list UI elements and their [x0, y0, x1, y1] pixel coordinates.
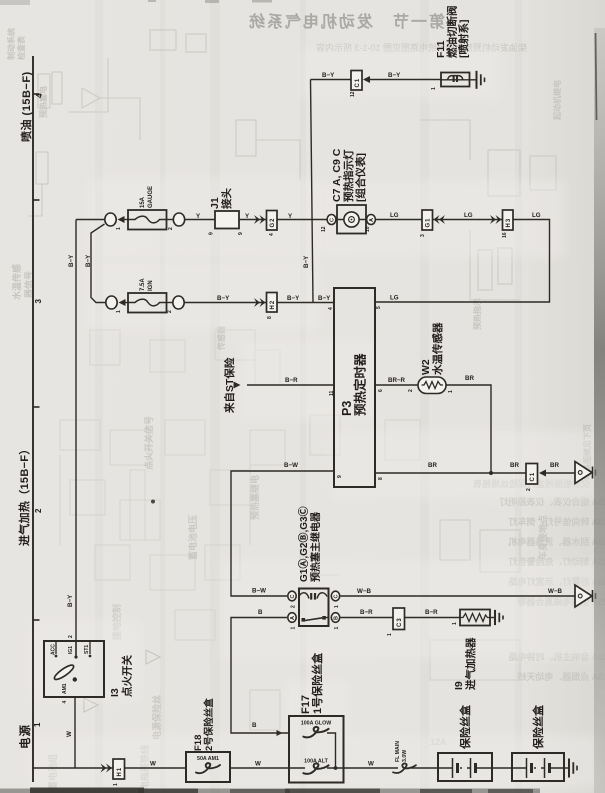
wire fuse to circle2 — [167, 219, 174, 221]
svg-text:B−Y: B−Y — [85, 254, 92, 267]
svg-text:预热定时器: 预热定时器 — [353, 353, 368, 416]
wire B-Y from C1 down to row2 junction — [311, 80, 314, 303]
svg-text:LG: LG — [390, 212, 399, 219]
svg-text:F11: F11 — [435, 40, 447, 58]
wire J1 to G2 — [239, 219, 267, 221]
svg-text:燃油切断阀: 燃油切断阀 — [446, 6, 459, 59]
svg-text:G1: G1 — [426, 217, 432, 227]
connector H2 — [267, 293, 278, 313]
wire F17 to FL MAIN — [344, 767, 399, 769]
junction connector J1 box — [215, 211, 239, 229]
section number 1 — [33, 722, 42, 727]
fuse element wave — [128, 216, 167, 223]
svg-text:4: 4 — [269, 233, 275, 236]
svg-text:B−W: B−W — [284, 462, 298, 469]
intake heater I9 box — [460, 610, 490, 626]
node circle fuse row2 right — [173, 296, 184, 309]
svg-text:3: 3 — [420, 234, 426, 237]
label G1A G2B G3C 预热塞主继电器 — [297, 506, 322, 582]
pin 4 — [269, 233, 275, 236]
label ACC — [51, 644, 57, 655]
svg-text:B−Y: B−Y — [322, 72, 335, 79]
svg-text:3: 3 — [34, 299, 43, 304]
svg-text:保险丝盒: 保险丝盒 — [458, 704, 472, 750]
label FL MAIN 3.0W — [395, 741, 408, 762]
label P3 预热定时器 — [340, 353, 368, 416]
svg-text:W: W — [368, 761, 374, 768]
pin 1 — [448, 390, 454, 393]
svg-text:2: 2 — [168, 227, 174, 230]
wire label B-Y vertical on C1 feed — [303, 255, 310, 268]
svg-text:蓄电池电压: 蓄电池电压 — [187, 515, 198, 560]
arrow into F17 glow — [277, 730, 283, 736]
svg-text:检查表: 检查表 — [16, 35, 26, 60]
pin 1 — [334, 605, 340, 608]
ink speck — [151, 500, 155, 504]
pin 2 — [167, 310, 173, 313]
connector C3 — [393, 608, 405, 630]
svg-text:B−R: B−R — [360, 609, 373, 616]
pin 1 — [387, 633, 393, 636]
section number 2 — [34, 508, 43, 513]
svg-text:12: 12 — [350, 91, 356, 97]
svg-text:A: A — [290, 616, 296, 620]
pin 8 — [267, 316, 273, 319]
connector G2 — [267, 211, 278, 231]
svg-text:2: 2 — [167, 310, 173, 313]
svg-text:FL MAIN: FL MAIN — [395, 741, 401, 762]
preheat indicator lamp C7A C9C box — [337, 205, 366, 234]
svg-text:进气加热器: 进气加热器 — [464, 637, 477, 690]
svg-text:B−W: B−W — [252, 588, 266, 595]
sensor resistor zigzag — [422, 382, 444, 389]
svg-text:ST1: ST1 — [84, 645, 90, 654]
wire battery1 to battery2 — [492, 767, 512, 769]
svg-text:B−R: B−R — [425, 609, 438, 616]
svg-text:2: 2 — [34, 508, 43, 513]
pin 12 — [350, 91, 356, 97]
wire H1 to F18 — [125, 767, 187, 769]
svg-text:1: 1 — [33, 722, 42, 727]
svg-text:电源保险丝: 电源保险丝 — [151, 695, 162, 740]
wire through F17 row — [289, 767, 344, 769]
svg-text:C7 A, C9 C: C7 A, C9 C — [331, 148, 343, 202]
relay circle C right — [331, 591, 339, 601]
wire B relay A to glow fuse — [231, 618, 289, 734]
wire W ign to bottom row — [74, 697, 76, 768]
wire to connector C1 top — [311, 79, 352, 81]
section label 进气加热(15B-F) — [17, 443, 31, 546]
chevron arrows into H3 — [490, 215, 502, 224]
lamp connector circle A — [367, 215, 376, 225]
label 15A GAUGE — [140, 186, 154, 208]
ground chassis battery — [564, 759, 577, 778]
label J1 接头 — [209, 188, 233, 209]
wire C3 to I9 — [405, 617, 461, 619]
label ST1 — [84, 645, 90, 654]
pin 1 — [334, 627, 340, 630]
wire C1 to F11 — [370, 79, 442, 81]
pin 1 — [291, 627, 297, 630]
pin 6 — [378, 389, 384, 392]
svg-text:1: 1 — [452, 622, 458, 625]
wire to ground triangle — [546, 472, 575, 474]
label F11 燃油切断阀 喷射系 — [435, 6, 470, 59]
pin 1 — [116, 227, 122, 230]
pin 12 — [321, 226, 327, 232]
section ruler line — [32, 56, 34, 782]
svg-text:B−R: B−R — [285, 377, 298, 384]
ground triangle W-B — [575, 585, 596, 607]
svg-text:50A AM1: 50A AM1 — [197, 756, 219, 762]
svg-text:预热塞继电: 预热塞继电 — [249, 475, 260, 520]
section tick 4 — [33, 93, 40, 95]
svg-text:1: 1 — [116, 310, 122, 313]
battery cells 2 — [512, 758, 564, 778]
pin 9 right — [238, 232, 244, 235]
battery box 2 — [512, 753, 564, 781]
wire P3 to W2 — [375, 384, 418, 386]
pin 1 — [113, 783, 119, 786]
svg-text:制动系统: 制动系统 — [6, 28, 16, 60]
svg-text:BR−R: BR−R — [388, 377, 406, 384]
ground chassis F11 — [470, 71, 485, 89]
svg-text:C: C — [290, 595, 296, 599]
svg-text:H2: H2 — [270, 300, 276, 310]
svg-text:J1: J1 — [209, 197, 221, 209]
svg-text:W−B: W−B — [357, 588, 371, 595]
svg-text:10A 转向信号灯、倒车灯: 10A 转向信号灯、倒车灯 — [508, 516, 605, 527]
svg-text:1: 1 — [116, 227, 122, 230]
svg-text:8: 8 — [378, 477, 384, 480]
fusible link FL MAIN 3.0W — [393, 763, 416, 773]
svg-text:水温传感: 水温传感 — [11, 264, 22, 300]
pin 1 — [452, 622, 458, 625]
svg-text:C1: C1 — [530, 472, 536, 482]
svg-text:2: 2 — [408, 389, 414, 392]
svg-text:[组合仪表]: [组合仪表] — [354, 153, 367, 202]
wire W2 to BR junction — [446, 385, 491, 473]
node circle fuse row1 left — [105, 213, 116, 226]
svg-text:4: 4 — [62, 701, 68, 704]
svg-text:LG: LG — [464, 212, 473, 219]
lamp connector circle C — [327, 215, 336, 225]
svg-text:15A 点烟器、电动天线: 15A 点烟器、电动天线 — [517, 671, 605, 682]
svg-text:10: 10 — [365, 226, 371, 232]
wire W-B relay to ground — [341, 595, 576, 597]
wire F18 to F17 — [230, 767, 289, 769]
pin 4 — [328, 307, 334, 310]
pin 1 — [431, 87, 437, 90]
svg-text:W: W — [255, 761, 261, 768]
pin 4 — [62, 701, 68, 704]
battery box 1 — [438, 753, 492, 781]
svg-text:2号保险丝盒: 2号保险丝盒 — [203, 698, 215, 751]
svg-text:1: 1 — [291, 627, 297, 630]
section tick 1-2 boundary — [33, 619, 40, 621]
pin 2 above — [68, 635, 74, 638]
section label 喷油(15B-F) — [19, 71, 33, 142]
svg-text:喷油 (15B−F): 喷油 (15B−F) — [19, 71, 33, 142]
svg-text:预热指示灯: 预热指示灯 — [342, 149, 355, 202]
svg-text:B: B — [252, 722, 257, 729]
svg-text:9: 9 — [337, 475, 343, 478]
pin 5 — [376, 306, 382, 309]
wire label B-Y vertical — [67, 594, 74, 607]
ground triangle BR — [575, 462, 596, 484]
lamp symbol — [337, 212, 366, 227]
chevron arrows into H1 — [101, 764, 113, 773]
svg-text:B−Y: B−Y — [67, 594, 74, 607]
svg-text:F18: F18 — [193, 735, 204, 751]
fuse box F18 — [186, 752, 230, 782]
svg-text:1号保险丝盒: 1号保险丝盒 — [310, 652, 324, 714]
svg-text:LG: LG — [390, 295, 399, 302]
wire fuse2 to circle — [167, 302, 173, 304]
water temp sensor W2 capsule — [418, 377, 446, 394]
arrow into row2 circle — [119, 299, 126, 306]
svg-text:B: B — [258, 609, 263, 616]
svg-text:BR: BR — [428, 462, 437, 469]
pin 11 — [329, 390, 335, 396]
svg-text:B−Y: B−Y — [287, 295, 300, 302]
pin 2 — [291, 605, 297, 608]
pin 10 — [365, 226, 371, 232]
svg-text:接头: 接头 — [220, 188, 233, 209]
svg-text:IGN: IGN — [148, 280, 154, 291]
wire label W vertical — [66, 731, 73, 737]
label 保险丝盒 battery1 — [458, 704, 472, 750]
svg-text:G2: G2 — [270, 217, 276, 227]
arrow into C1 — [363, 76, 370, 83]
wire lamp to G1 — [376, 219, 422, 221]
relay circle C left — [288, 591, 296, 601]
chevron arrows into G1 — [434, 215, 446, 224]
node circle fuse row1 right — [173, 213, 184, 226]
svg-text:ACC: ACC — [51, 644, 57, 655]
label F18 2号保险丝盒 — [193, 698, 215, 751]
connector H1 — [113, 759, 125, 779]
svg-text:LG: LG — [532, 212, 541, 219]
wire label B-Y vertical 2 — [85, 254, 92, 267]
wire H2 to P3 — [277, 302, 334, 304]
svg-text:B: B — [334, 616, 340, 620]
relay circle A left — [288, 613, 296, 623]
svg-text:C: C — [330, 218, 336, 222]
wire B-R from ST fuse — [247, 384, 334, 386]
page gutter shadow right edge — [594, 28, 605, 793]
svg-text:2: 2 — [526, 488, 532, 491]
svg-text:GAUGE: GAUGE — [148, 186, 154, 208]
svg-text:预热塞电: 预热塞电 — [38, 86, 48, 118]
svg-text:电源: 电源 — [18, 724, 32, 749]
wire G1 to H3 — [433, 219, 503, 221]
switch lever AM1 — [53, 663, 77, 682]
label IG1 — [68, 646, 74, 654]
svg-text:B−Y: B−Y — [68, 254, 75, 267]
svg-text:第一节 发动机电气系统: 第一节 发动机电气系统 — [247, 12, 445, 31]
preheat timer P3 box — [334, 288, 375, 487]
svg-text:I9: I9 — [453, 681, 465, 690]
svg-text:2: 2 — [68, 635, 74, 638]
connector G1 — [422, 210, 433, 230]
pin 9 — [337, 475, 343, 478]
svg-text:B−Y: B−Y — [388, 72, 401, 79]
svg-text:1: 1 — [113, 783, 119, 786]
terminal ACC — [55, 641, 57, 654]
label AM1 — [62, 683, 68, 694]
svg-text:W−B: W−B — [548, 588, 562, 595]
svg-text:7.5A: 7.5A — [140, 278, 146, 291]
wire B-R relay B to C3 — [341, 617, 394, 619]
label F17 1号保险丝盒 — [300, 652, 324, 714]
svg-text:5: 5 — [376, 306, 382, 309]
svg-text:6: 6 — [378, 389, 384, 392]
section tick 2-3 boundary — [33, 406, 40, 408]
svg-text:10A 刮水器、洗涤器电机: 10A 刮水器、洗涤器电机 — [508, 536, 605, 547]
bottom page edge shadow — [0, 788, 540, 793]
pin 2 — [408, 389, 414, 392]
svg-text:12: 12 — [321, 226, 327, 232]
svg-text:1: 1 — [334, 627, 340, 630]
wire G2 to lamp — [277, 219, 337, 221]
svg-text:I3: I3 — [109, 688, 121, 697]
svg-text:C1: C1 — [355, 78, 361, 88]
connector C1 fuel cut — [351, 71, 362, 91]
fuse F-GAUGE 15A box — [128, 210, 167, 230]
svg-text:H3: H3 — [506, 218, 512, 228]
svg-text:C: C — [334, 595, 340, 599]
relay contact — [302, 616, 329, 622]
wire glow to main row — [327, 733, 336, 768]
pin 2 — [168, 227, 174, 230]
label C7A C9C 预热指示灯 组合仪表 — [331, 148, 367, 202]
svg-text:B−Y: B−Y — [303, 255, 310, 268]
wire B-W P3 to relay coil — [231, 471, 334, 596]
svg-text:16: 16 — [502, 232, 508, 238]
arrow into C1 lower — [539, 470, 546, 477]
heater resistor zigzag — [460, 614, 490, 622]
section label 电源 — [18, 724, 32, 749]
label 7.5A IGN — [140, 278, 154, 291]
wire P3 pin8 BR to ground — [375, 472, 526, 474]
pin 3 — [420, 234, 426, 237]
label I3 点火开关 — [109, 655, 134, 697]
wire B-Y down to ignition switch — [75, 220, 77, 657]
svg-text:100A GLOW: 100A GLOW — [301, 721, 331, 727]
svg-text:保险丝盒: 保险丝盒 — [531, 704, 545, 750]
ground chassis I9 — [490, 610, 503, 625]
fuse box F17 — [289, 716, 344, 783]
svg-text:AM1: AM1 — [62, 683, 68, 694]
wire H3 to LG corner — [375, 220, 550, 303]
wire FL to battery — [411, 767, 438, 769]
svg-text:8: 8 — [267, 316, 273, 319]
svg-text:15A: 15A — [140, 196, 146, 208]
svg-text:水温传感器: 水温传感器 — [431, 322, 444, 376]
section tick 3-4 boundary — [33, 199, 40, 201]
wire to J1 — [185, 219, 215, 221]
label W2 水温传感器 — [420, 322, 444, 376]
pin 1 — [116, 310, 122, 313]
terminal IG1 with feed — [75, 641, 77, 655]
svg-text:C3: C3 — [397, 617, 403, 627]
svg-text:BR: BR — [465, 375, 474, 382]
terminal ST1 — [89, 641, 91, 654]
svg-text:W2: W2 — [420, 359, 432, 375]
glow relay box G1A G2B G3C — [299, 589, 329, 627]
svg-text:进气加热（15B−F）: 进气加热（15B−F） — [17, 443, 31, 546]
svg-text:点火开关信号: 点火开关信号 — [143, 416, 154, 470]
svg-text:W: W — [150, 761, 156, 768]
connector H3 — [503, 210, 514, 230]
solenoid coil — [441, 79, 470, 81]
wire B-Y to 15A GAUGE fuse — [76, 219, 104, 221]
wire label B-Y vertical — [68, 254, 75, 267]
svg-text:9: 9 — [238, 232, 244, 235]
junction dot — [334, 766, 338, 770]
fuel cut solenoid F11 box — [441, 73, 470, 87]
pin 9 left — [209, 232, 215, 235]
pin 8 — [378, 477, 384, 480]
svg-text:[喷射系]: [喷射系] — [457, 20, 470, 59]
chevron arrows into G2 — [254, 215, 266, 224]
fuse link 100A ALT — [303, 763, 328, 774]
svg-text:来自ST保险: 来自ST保险 — [223, 357, 236, 414]
relay circle B right — [331, 613, 339, 623]
label 来自ST保险 — [223, 357, 236, 414]
svg-text:点火开关: 点火开关 — [121, 655, 134, 697]
svg-text:3.0W: 3.0W — [402, 750, 408, 762]
svg-text:A: A — [369, 218, 375, 222]
fuse link 50A — [196, 763, 220, 773]
svg-text:4: 4 — [35, 93, 44, 98]
junction dot — [489, 471, 493, 475]
label I9 进气加热器 — [453, 637, 477, 690]
section number 4 — [35, 93, 44, 98]
node circle fuse row2 left — [106, 296, 117, 309]
svg-text:B−Y: B−Y — [318, 295, 331, 302]
svg-text:P3: P3 — [340, 401, 354, 416]
connector C1 lower — [526, 464, 538, 485]
section number 3 — [34, 299, 43, 304]
svg-text:H1: H1 — [117, 767, 123, 777]
relay coil — [299, 593, 327, 599]
svg-text:预热塞主继电器: 预热塞主继电器 — [309, 511, 322, 582]
svg-text:起动机继电: 起动机继电 — [552, 80, 562, 121]
svg-text:1: 1 — [448, 390, 454, 393]
battery cells 1 — [438, 758, 492, 778]
arrow into row1 circle — [118, 216, 125, 223]
svg-text:IG1: IG1 — [68, 646, 74, 654]
arrow from ST fuse — [234, 382, 241, 389]
fuse element wave — [128, 299, 167, 306]
pin 2 — [526, 488, 532, 491]
chevron arrows into H2 — [254, 298, 266, 307]
svg-text:W: W — [66, 731, 73, 737]
fuse link 100A GLOW — [303, 727, 328, 738]
svg-text:11: 11 — [329, 390, 335, 396]
svg-text:9: 9 — [209, 232, 215, 235]
svg-text:车身接地点: 车身接地点 — [537, 515, 548, 560]
svg-text:G1Ⓐ,G2Ⓑ,G3Ⓒ: G1Ⓐ,G2Ⓑ,G3Ⓒ — [297, 506, 310, 582]
pin 16 — [502, 232, 508, 238]
ignition switch I3 box — [44, 641, 104, 697]
svg-text:2: 2 — [291, 605, 297, 608]
svg-text:1: 1 — [431, 87, 437, 90]
svg-text:1: 1 — [334, 605, 340, 608]
wire circle to H2 — [185, 302, 267, 304]
